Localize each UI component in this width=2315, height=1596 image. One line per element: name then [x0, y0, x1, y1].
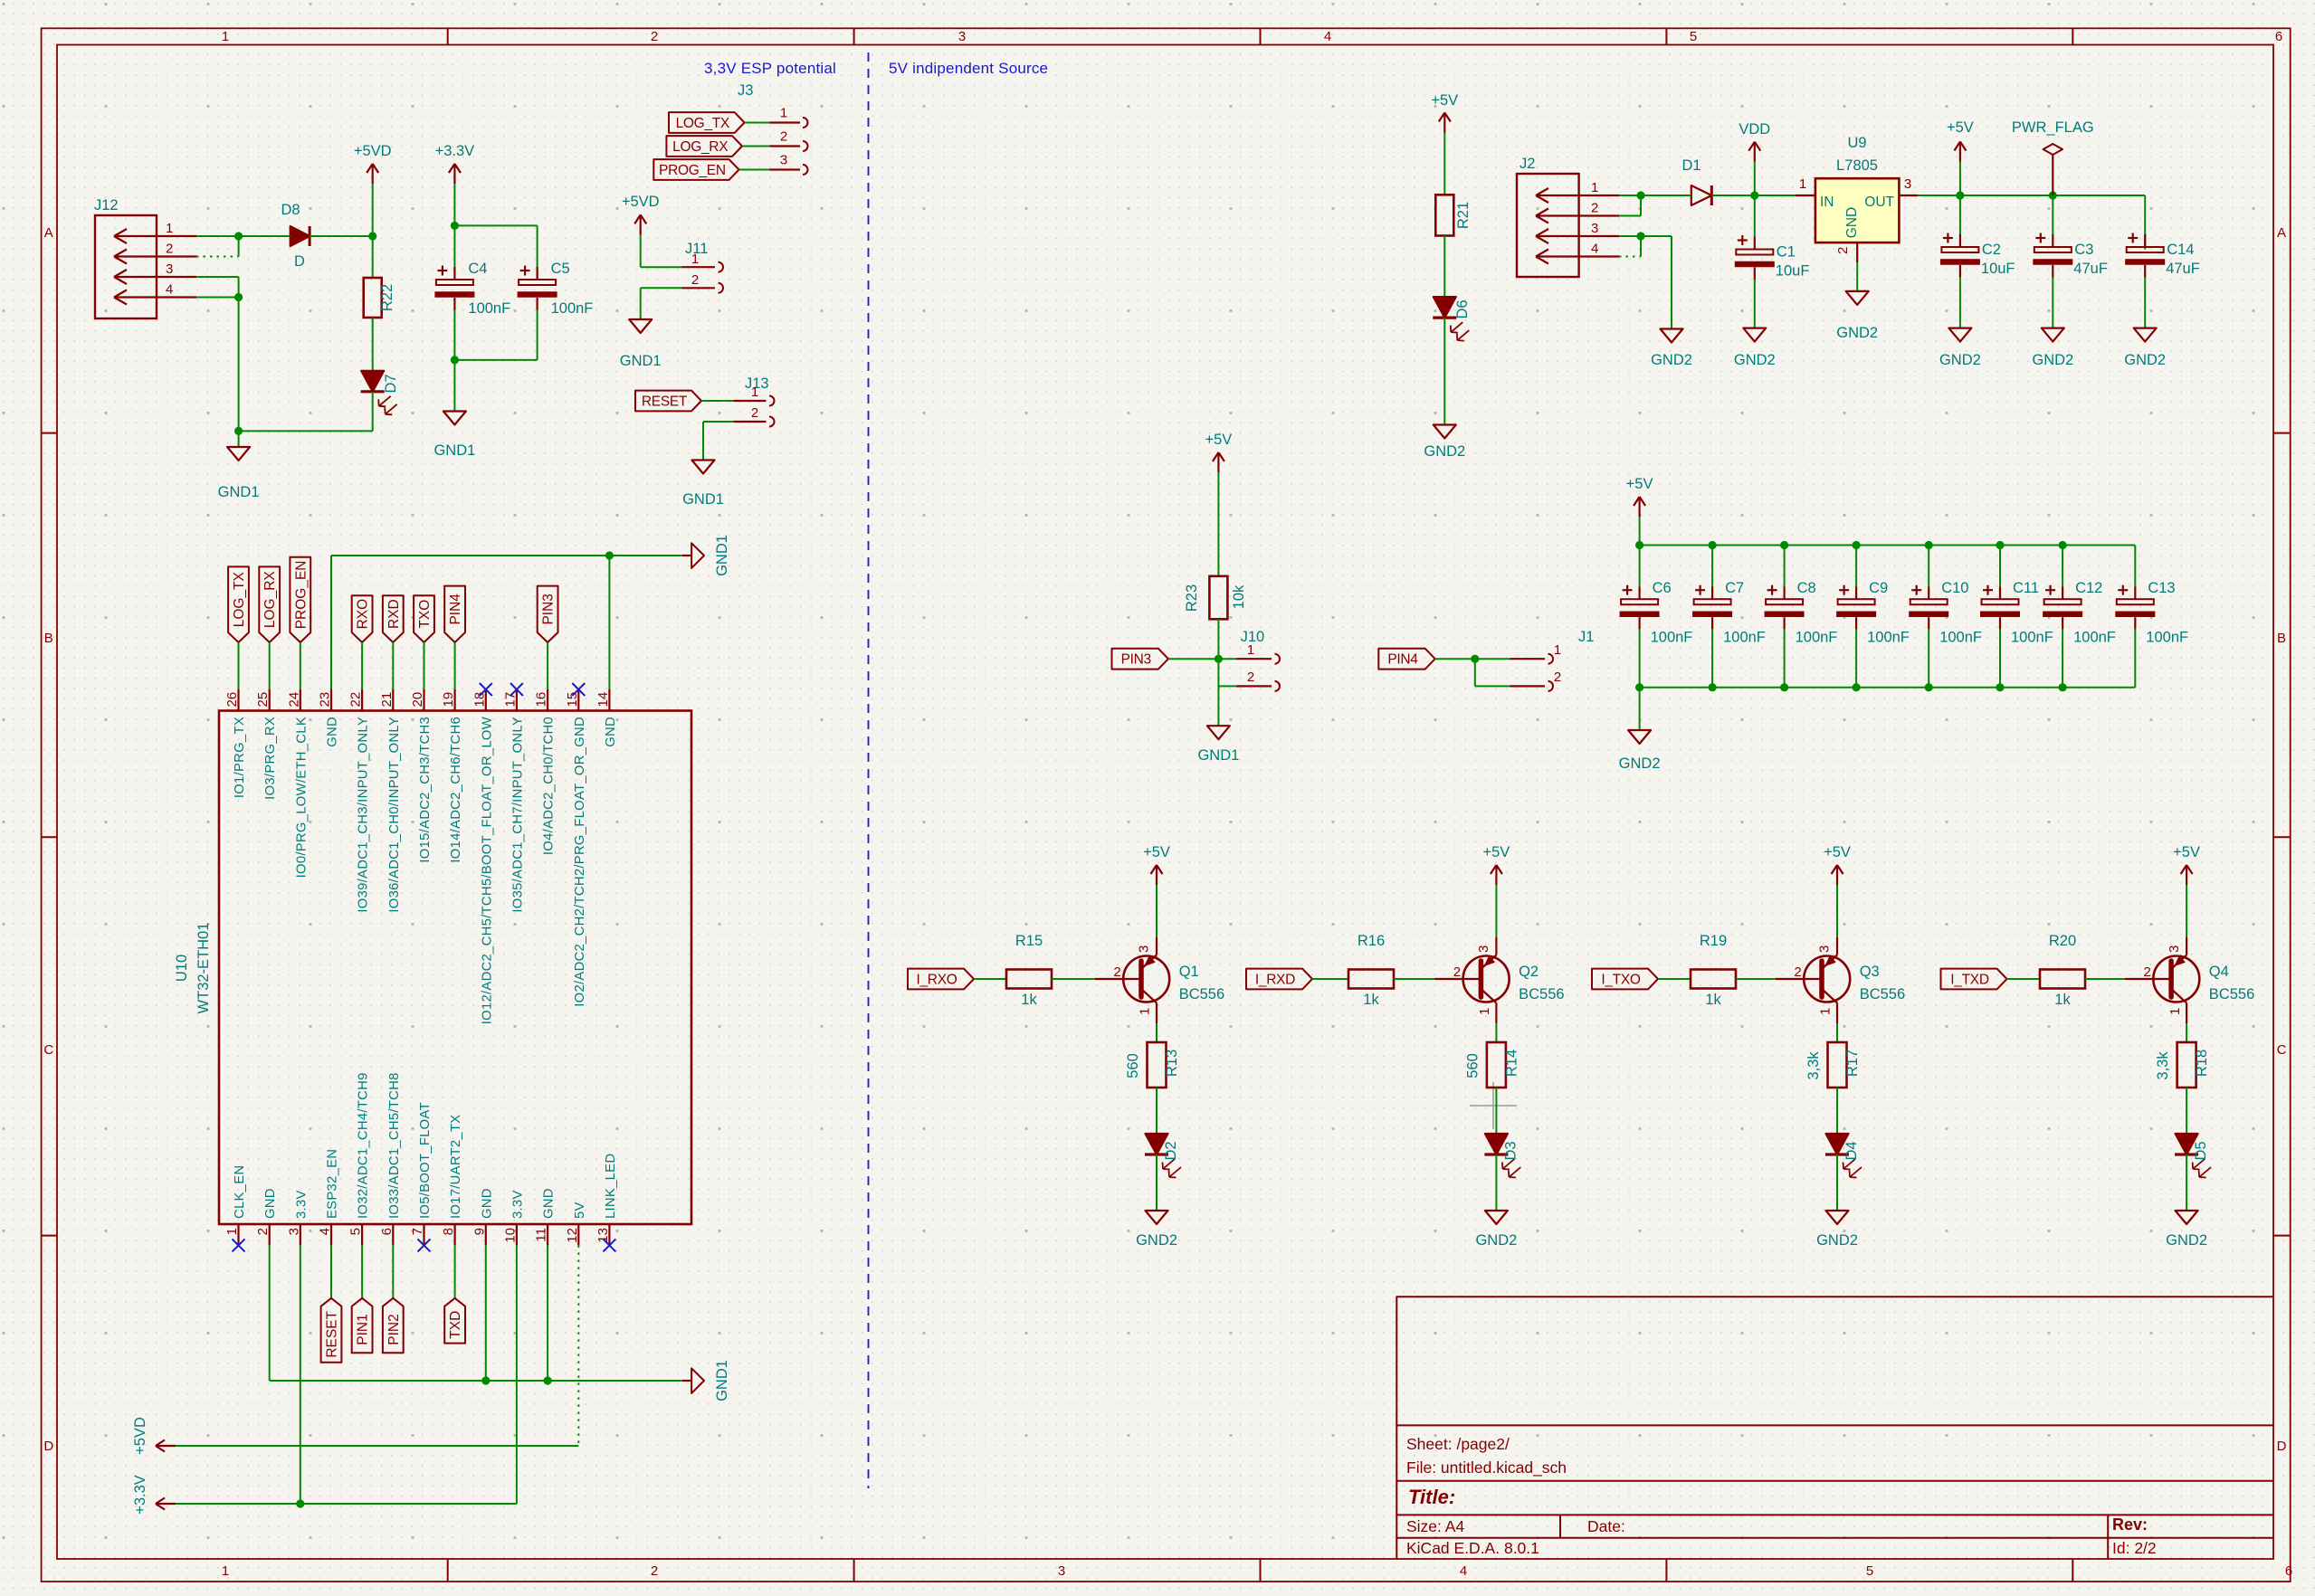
regulator U9 L7805	[1796, 135, 1918, 262]
svg-text:KiCad E.D.A. 8.0.1: KiCad E.D.A. 8.0.1	[1406, 1539, 1539, 1557]
svg-text:BC556: BC556	[2209, 986, 2254, 1002]
global label TXO (U10 top)	[414, 595, 434, 642]
power +5V (R23)	[1205, 432, 1232, 472]
ground arrow GND1 (U10 top)	[682, 535, 730, 576]
capacitor C12	[2043, 546, 2116, 688]
svg-text:TXO: TXO	[417, 600, 433, 629]
svg-text:2: 2	[751, 405, 758, 421]
wire J11.2-gnd	[641, 288, 682, 319]
svg-text:10: 10	[502, 1228, 518, 1243]
svg-text:100nF: 100nF	[1867, 630, 1910, 646]
U10 pin 1 (CLK_EN)	[224, 1165, 247, 1246]
wire J13.2-gnd	[703, 422, 733, 461]
svg-text:10k: 10k	[1231, 584, 1247, 609]
svg-text:J12: J12	[94, 197, 119, 214]
svg-text:100nF: 100nF	[1651, 630, 1693, 646]
svg-text:10uF: 10uF	[1776, 263, 1810, 280]
U10 pin 10 (3.3V)	[502, 1190, 525, 1245]
wire I_RXO-R15	[974, 978, 1006, 980]
U10 pin 13 (LINK_LED)	[595, 1154, 618, 1246]
junction cap top	[1996, 541, 2004, 549]
svg-text:R19: R19	[1700, 933, 1727, 949]
global label PIN3 (U10 top)	[538, 586, 558, 642]
ground GND1 (J13)	[682, 461, 724, 508]
wire R15-base	[1052, 978, 1095, 980]
svg-text:560: 560	[1125, 1053, 1141, 1078]
wire pin12 down (dotted)	[577, 1245, 579, 1446]
svg-text:+5VD: +5VD	[622, 194, 660, 210]
junction +5V/C2	[1956, 191, 1964, 199]
svg-text:CLK_EN: CLK_EN	[233, 1165, 247, 1219]
wire R19-base	[1736, 978, 1776, 980]
wire PROG_EN-pin	[300, 642, 301, 689]
svg-text:22: 22	[348, 692, 364, 708]
global label PROG_EN (U10 top)	[290, 557, 310, 642]
diode D1	[1681, 157, 1711, 205]
svg-text:R21: R21	[1455, 202, 1472, 229]
U10 pin 15 (IO2/ADC2_CH2/TCH2/PRG_FLOAT_OR_GND)	[565, 689, 587, 1007]
svg-text:GND2: GND2	[2166, 1232, 2207, 1249]
svg-text:LOG_TX: LOG_TX	[232, 571, 247, 627]
svg-text:PIN2: PIN2	[386, 1314, 402, 1344]
svg-text:15: 15	[565, 692, 580, 708]
capacitor C1	[1735, 195, 1810, 328]
svg-text:Q2: Q2	[1519, 964, 1539, 980]
note 3.3V ESP potential	[704, 60, 836, 77]
svg-text:+5V: +5V	[1205, 432, 1232, 448]
svg-text:26: 26	[224, 692, 240, 708]
power VDD	[1739, 121, 1770, 195]
svg-text:IO35/ADC1_CH7/INPUT_ONLY: IO35/ADC1_CH7/INPUT_ONLY	[510, 717, 525, 913]
wire D4-gnd	[1836, 1154, 1838, 1211]
ground arrow GND1 (U10 bottom)	[682, 1360, 730, 1401]
capacitor C3	[2033, 195, 2108, 328]
U10 pin 20 (IO15/ADC2_CH3/TCH3)	[410, 689, 433, 863]
svg-text:IO12/ADC2_CH5/TCH5/BOOT_FLOAT_: IO12/ADC2_CH5/TCH5/BOOT_FLOAT_OR_LOW	[480, 717, 494, 1024]
svg-text:11: 11	[534, 1228, 549, 1242]
svg-text:GND: GND	[326, 717, 340, 747]
svg-text:3: 3	[1591, 221, 1598, 236]
svg-text:C3: C3	[2074, 242, 2093, 258]
no-connect pin 7	[418, 1239, 431, 1251]
svg-text:R13: R13	[1164, 1050, 1180, 1077]
svg-text:A: A	[2277, 225, 2286, 241]
svg-text:C12: C12	[2075, 580, 2102, 596]
connector J10	[1236, 629, 1280, 691]
wire pin-TXD	[454, 1245, 456, 1297]
svg-text:4: 4	[318, 1228, 333, 1235]
svg-text:1k: 1k	[1363, 992, 1379, 1008]
svg-text:R22: R22	[379, 284, 395, 311]
svg-text:WT32-ETH01: WT32-ETH01	[195, 923, 212, 1014]
svg-text:RXD: RXD	[386, 599, 402, 629]
svg-text:+5V: +5V	[1143, 844, 1170, 860]
no-connect pin 1	[233, 1239, 245, 1251]
svg-text:I_TXO: I_TXO	[1601, 973, 1641, 988]
svg-text:C11: C11	[2013, 580, 2039, 596]
svg-text:Id: 2/2: Id: 2/2	[2112, 1539, 2157, 1557]
resistor R22	[364, 236, 395, 371]
wire C4-C5 top	[454, 225, 537, 280]
svg-text:GND2: GND2	[1836, 325, 1878, 341]
svg-text:9: 9	[472, 1228, 487, 1235]
diode D8	[281, 202, 310, 270]
svg-text:PIN1: PIN1	[356, 1314, 371, 1344]
U10 pin 7 (IO5/BOOT_FLOAT)	[410, 1102, 433, 1245]
wire R14-D3	[1495, 1088, 1497, 1134]
svg-text:5: 5	[348, 1228, 364, 1235]
svg-text:+5V: +5V	[1482, 844, 1510, 860]
svg-text:4: 4	[166, 282, 173, 298]
svg-text:IO1/PRG_TX: IO1/PRG_TX	[233, 717, 247, 798]
global label I_RXO	[908, 969, 974, 990]
wire I_RXD-R16	[1312, 978, 1348, 980]
global label PROG_EN (J3)	[653, 159, 738, 180]
svg-text:BC556: BC556	[1519, 986, 1564, 1002]
global label RESET (J13)	[635, 391, 701, 412]
svg-text:GND2: GND2	[2032, 352, 2073, 368]
wire D3-gnd	[1495, 1154, 1497, 1211]
resistor R23	[1184, 472, 1247, 659]
transistor Q2 BC556	[1434, 937, 1564, 1023]
svg-text:5: 5	[1690, 29, 1697, 44]
wire J2-D1	[1641, 195, 1691, 196]
title block	[1396, 1297, 2273, 1559]
U10 pin 6 (IO33/ADC1_CH5/TCH8)	[379, 1072, 402, 1245]
LED D6	[1433, 297, 1471, 341]
svg-text:1: 1	[222, 1563, 229, 1579]
wire R17-D4	[1836, 1088, 1838, 1134]
wire pin9 down	[485, 1245, 487, 1381]
power +5V (Q4)	[2173, 844, 2200, 937]
capacitor C7	[1692, 546, 1766, 688]
junction cap top	[1635, 541, 1643, 549]
svg-text:4: 4	[1591, 242, 1598, 257]
wire RESET-J13	[701, 400, 733, 402]
global label RXD (U10 top)	[383, 595, 404, 642]
svg-text:LOG_TX: LOG_TX	[676, 116, 730, 131]
wire R20-base	[2085, 978, 2125, 980]
svg-text:+5VD: +5VD	[132, 1417, 148, 1455]
connector J11	[682, 241, 724, 293]
U10 pin 21 (IO36/ADC1_CH0/INPUT_ONLY)	[379, 689, 402, 913]
svg-text:IN: IN	[1820, 195, 1834, 210]
wire D6-gnd	[1443, 318, 1445, 424]
U10 pin 11 (GND)	[534, 1188, 557, 1245]
wire D2-gnd	[1156, 1154, 1157, 1211]
svg-text:4: 4	[1460, 1563, 1467, 1579]
junction cap top	[1780, 541, 1788, 549]
svg-text:GND: GND	[1844, 207, 1860, 238]
global label LOG_TX (U10 top)	[228, 566, 249, 642]
svg-text:L7805: L7805	[1836, 157, 1878, 174]
svg-text:2: 2	[1591, 201, 1598, 216]
svg-text:GND: GND	[604, 717, 618, 747]
svg-text:U9: U9	[1847, 135, 1866, 151]
wire U9out rail	[1918, 195, 2145, 250]
svg-text:100nF: 100nF	[468, 300, 510, 317]
svg-text:1: 1	[1554, 642, 1561, 658]
svg-text:+5V: +5V	[1626, 476, 1653, 492]
capacitor C10	[1909, 546, 1982, 688]
wire pin-RESET	[330, 1245, 332, 1297]
capacitor C14	[2125, 233, 2200, 328]
wire pin11 down	[547, 1245, 548, 1381]
svg-text:IO4/ADC2_CH0/TCH0: IO4/ADC2_CH0/TCH0	[542, 717, 557, 855]
svg-text:1k: 1k	[2054, 992, 2071, 1008]
resistor R20	[2040, 933, 2085, 1008]
svg-text:GND2: GND2	[1816, 1232, 1858, 1249]
svg-text:1k: 1k	[1021, 992, 1037, 1008]
svg-text:100nF: 100nF	[1723, 630, 1766, 646]
power +5V (Q3)	[1824, 844, 1851, 937]
note 5V indipendent Source	[889, 60, 1048, 77]
svg-text:Q4: Q4	[2209, 964, 2229, 980]
wire LOG_RX-J3	[742, 146, 769, 147]
svg-text:R14: R14	[1503, 1050, 1520, 1077]
ground GND2 (D5)	[2166, 1211, 2207, 1249]
svg-text:OUT: OUT	[1864, 195, 1894, 210]
junction J2 pin3	[1636, 232, 1644, 240]
capacitor C4	[434, 225, 510, 360]
svg-text:13: 13	[595, 1228, 611, 1243]
global label RESET (U10 bottom)	[321, 1298, 342, 1363]
wire capbank-gnd	[1639, 688, 1641, 730]
svg-text:GND1: GND1	[218, 484, 260, 500]
junction cap gnd	[1635, 683, 1643, 691]
svg-text:C10: C10	[1941, 580, 1968, 596]
svg-text:2: 2	[1113, 964, 1120, 980]
svg-text:2: 2	[2143, 964, 2150, 980]
global label LOG_TX (J3)	[669, 112, 745, 133]
svg-text:47uF: 47uF	[2166, 261, 2200, 277]
junction pin14/gnd rail	[605, 551, 614, 559]
U10 pin 3 (3.3V)	[286, 1190, 309, 1245]
svg-text:D8: D8	[281, 202, 300, 218]
svg-text:14: 14	[595, 692, 611, 708]
svg-text:R16: R16	[1358, 933, 1385, 949]
svg-text:J2: J2	[1520, 156, 1535, 172]
U10 pin 8 (IO17/UART2_TX)	[441, 1115, 463, 1246]
svg-text:2: 2	[1554, 670, 1561, 685]
svg-text:1: 1	[751, 385, 758, 400]
svg-text:1: 1	[691, 252, 699, 267]
svg-text:IO39/ADC1_CH3/INPUT_ONLY: IO39/ADC1_CH3/INPUT_ONLY	[357, 717, 371, 913]
svg-text:1: 1	[224, 1228, 240, 1235]
global label PIN4 (J1)	[1378, 649, 1434, 670]
svg-text:GND2: GND2	[1939, 352, 1981, 368]
wire PROG_EN-J3	[739, 169, 770, 171]
U10 pin 17 (IO35/ADC1_CH7/INPUT_ONLY)	[502, 689, 525, 913]
svg-text:2: 2	[1453, 964, 1461, 980]
no-connect pin 13	[603, 1239, 615, 1251]
svg-text:GND2: GND2	[2124, 352, 2166, 368]
svg-text:GND1: GND1	[714, 535, 730, 576]
svg-text:C13: C13	[2148, 580, 2175, 596]
svg-text:Q3: Q3	[1860, 964, 1880, 980]
U10 pin 24 (IO0/PRG_LOW/ETH_CLK)	[286, 689, 309, 878]
junction cap top	[1925, 541, 1933, 549]
junction cap top	[1709, 541, 1717, 549]
svg-text:I_RXD: I_RXD	[1255, 973, 1295, 988]
svg-text:3: 3	[958, 29, 966, 44]
resistor R15	[1006, 933, 1052, 1008]
LED D3	[1484, 1134, 1520, 1178]
ground GND2 (D3)	[1475, 1211, 1517, 1249]
wire pin14 up	[608, 556, 610, 689]
junction cap bottom	[1853, 683, 1861, 691]
svg-text:2: 2	[651, 1563, 658, 1579]
svg-text:D3: D3	[1502, 1141, 1519, 1160]
junction cap bottom	[1780, 683, 1788, 691]
U10 pin 2 (GND)	[255, 1188, 278, 1245]
svg-text:C: C	[43, 1042, 53, 1058]
U10 pin 22 (IO39/ADC1_CH3/INPUT_ONLY)	[348, 689, 371, 913]
svg-text:C4: C4	[468, 261, 487, 277]
svg-text:2: 2	[651, 29, 658, 44]
resistor R14	[1464, 1023, 1520, 1088]
svg-text:6: 6	[2285, 1563, 2292, 1579]
svg-text:25: 25	[255, 692, 271, 708]
global label I_RXD	[1246, 969, 1312, 990]
power +3.3V rail	[132, 1475, 517, 1515]
svg-text:GND1: GND1	[714, 1360, 730, 1401]
svg-text:100nF: 100nF	[2011, 630, 2053, 646]
wire I_TXO-R19	[1658, 978, 1691, 980]
svg-text:1k: 1k	[1705, 992, 1721, 1008]
svg-text:6: 6	[379, 1228, 395, 1235]
svg-text:18: 18	[472, 692, 487, 708]
junction cap bottom	[1996, 683, 2004, 691]
svg-text:23: 23	[318, 692, 333, 708]
capacitor C13	[2115, 546, 2188, 688]
global label PIN4 (U10 top)	[444, 586, 465, 642]
junction PWRFLAG/C3	[2049, 191, 2057, 199]
svg-text:3: 3	[1476, 945, 1491, 953]
svg-text:IO36/ADC1_CH0/INPUT_ONLY: IO36/ADC1_CH0/INPUT_ONLY	[387, 717, 402, 913]
wire PIN3-pin	[547, 642, 548, 689]
svg-text:1: 1	[780, 106, 787, 121]
svg-text:3: 3	[780, 153, 787, 168]
power +5V (R21)	[1431, 92, 1458, 133]
svg-text:R18: R18	[2194, 1050, 2210, 1077]
capacitor C2	[1940, 195, 2015, 328]
svg-text:3,3k: 3,3k	[2155, 1051, 2171, 1080]
wire D7-gnd	[372, 392, 374, 432]
ground GND2 (cap bank)	[1619, 730, 1661, 772]
svg-text:1: 1	[1477, 1008, 1492, 1015]
svg-text:3: 3	[1137, 945, 1152, 953]
svg-text:GND2: GND2	[1734, 352, 1776, 368]
svg-text:LOG_RX: LOG_RX	[672, 139, 729, 155]
U10 pin 25 (IO3/PRG_RX)	[255, 689, 278, 800]
svg-text:D2: D2	[1163, 1141, 1179, 1160]
svg-text:BC556: BC556	[1860, 986, 1905, 1002]
svg-text:47uF: 47uF	[2073, 261, 2108, 277]
global label TXD (U10 bottom)	[444, 1298, 465, 1344]
svg-text:Sheet: /page2/: Sheet: /page2/	[1406, 1435, 1510, 1453]
svg-text:C1: C1	[1777, 244, 1796, 261]
junction C4 bottom	[451, 356, 459, 364]
junction cap top	[2059, 541, 2067, 549]
wire pin2-GND1 rail	[270, 1245, 682, 1381]
connector J13	[733, 375, 774, 427]
svg-text:PIN4: PIN4	[1387, 652, 1418, 668]
svg-text:IO32/ADC1_CH4/TCH9: IO32/ADC1_CH4/TCH9	[357, 1072, 371, 1219]
svg-text:1: 1	[166, 221, 173, 236]
svg-text:Date:: Date:	[1587, 1517, 1625, 1535]
svg-text:5V indipendent Source: 5V indipendent Source	[889, 60, 1048, 77]
wire PIN4-J1	[1435, 658, 1510, 660]
wire pin-PIN2	[392, 1245, 394, 1297]
svg-text:C7: C7	[1725, 580, 1744, 596]
svg-text:R23: R23	[1184, 584, 1200, 612]
svg-text:GND2: GND2	[1651, 352, 1692, 368]
power +5VD rail	[132, 1417, 578, 1455]
ground GND1 (C4)	[433, 360, 475, 459]
svg-text:+3.3V: +3.3V	[132, 1475, 148, 1515]
wire R13-D2	[1156, 1088, 1157, 1134]
svg-text:17: 17	[502, 692, 518, 708]
junction pin9	[481, 1376, 490, 1384]
svg-text:+5V: +5V	[1824, 844, 1851, 860]
svg-text:I_TXD: I_TXD	[1950, 973, 1989, 988]
svg-text:File: untitled.kicad_sch: File: untitled.kicad_sch	[1406, 1458, 1567, 1477]
svg-text:GND: GND	[263, 1188, 278, 1219]
svg-text:+3.3V: +3.3V	[435, 143, 475, 159]
capacitor C11	[1980, 546, 2053, 688]
svg-text:PIN3: PIN3	[541, 594, 557, 624]
wire R16-base	[1394, 978, 1434, 980]
svg-text:560: 560	[1464, 1053, 1481, 1078]
svg-text:B: B	[2277, 631, 2286, 646]
resistor R16	[1348, 933, 1394, 1008]
ground GND2 (D4)	[1816, 1211, 1858, 1249]
svg-text:LINK_LED: LINK_LED	[604, 1154, 618, 1219]
wire PIN4-pin	[454, 642, 456, 689]
wire D1-VDD	[1711, 195, 1796, 196]
svg-text:IO5/BOOT_FLOAT: IO5/BOOT_FLOAT	[418, 1102, 433, 1219]
svg-text:D: D	[2277, 1439, 2287, 1454]
svg-text:RESET: RESET	[325, 1310, 340, 1357]
svg-text:D5: D5	[2193, 1141, 2209, 1160]
wire LOG_TX-pin	[238, 642, 240, 689]
wire LOG_TX-J3	[745, 122, 770, 124]
junction cap bottom	[2059, 683, 2067, 691]
svg-text:2: 2	[166, 242, 173, 257]
capacitor C5	[518, 261, 594, 360]
ground GND2 (C1)	[1734, 328, 1776, 368]
ground GND2 (D2)	[1136, 1211, 1177, 1249]
svg-text:GND1: GND1	[1197, 747, 1239, 764]
power +5V (cap bank)	[1626, 476, 1653, 546]
svg-text:D: D	[294, 253, 305, 270]
global label LOG_RX (U10 top)	[259, 566, 280, 642]
global label PIN3 (J10)	[1112, 649, 1168, 670]
no-connect pin 15	[572, 683, 585, 696]
wire cap bank top bus	[1640, 545, 2136, 546]
U10 pin 23 (GND)	[318, 689, 340, 747]
svg-text:IO0/PRG_LOW/ETH_CLK: IO0/PRG_LOW/ETH_CLK	[294, 717, 309, 878]
wire J2 pins	[1619, 195, 1641, 257]
svg-text:IO33/ADC1_CH5/TCH8: IO33/ADC1_CH5/TCH8	[387, 1072, 402, 1219]
svg-text:C: C	[2277, 1042, 2287, 1058]
resistor R19	[1691, 933, 1736, 1008]
junction J10 pin1	[1215, 655, 1223, 663]
wire RXD-pin	[392, 642, 394, 689]
svg-text:U10: U10	[174, 955, 190, 982]
wire J2-gnd	[1641, 236, 1672, 329]
